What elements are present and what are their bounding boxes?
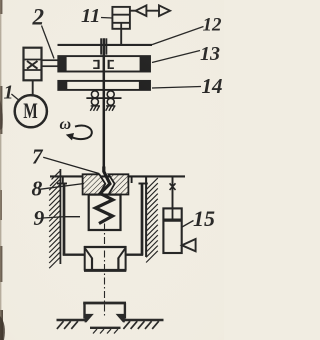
hatch under anvil base [93,329,118,334]
paper edge artifacts [0,0,3,340]
anvil [83,302,126,305]
anvil foot wedge right [116,314,125,323]
leader line to striker tip [43,157,99,173]
right wall hatching [146,178,158,263]
damper box 15 [163,208,181,253]
disc 13 [58,56,150,71]
sensor box 11 [112,7,129,29]
container bottom [63,253,85,255]
leader line to clamp block [41,184,84,190]
leader line to disc 14 [152,87,201,89]
hanger stubs [62,177,64,183]
anvil foot wedge left [85,314,94,323]
ground line [57,319,87,321]
leader line to disc 13 [152,51,200,63]
coupling stack [24,48,42,81]
inner guide rect [89,195,121,230]
leader line to beam [152,27,204,45]
plug collar [84,246,86,271]
slider fork bars [100,38,102,54]
plug block [91,258,93,270]
left wall hatching [49,179,60,268]
leader line to motor [11,94,19,101]
motor M circle [15,95,47,127]
X mark on hanger [170,183,176,190]
disc 14 [58,81,150,90]
bearing mid plate line [86,97,121,99]
container 9 walls [63,183,66,255]
stem from sensor box to beam [120,29,122,45]
bearing ground left [90,106,100,111]
leader line to shaft 2 [42,26,55,59]
nozzle triangle [182,239,196,251]
central shaft [103,38,106,171]
clamp block 8 right [109,174,129,194]
clamp block 8 left [83,174,106,194]
left guide wall [59,169,61,264]
container rims [57,183,67,185]
striker zigzag spring 7 [96,167,113,224]
X in coupling [27,61,38,69]
centerline dash-dot [104,224,106,318]
damper hanger [172,176,174,208]
anvil base lower line [90,327,121,329]
ground hatching [57,321,159,329]
leader line to sensor box [101,17,112,20]
link motor to coupling [32,80,34,95]
leader line into container [42,217,65,218]
sliding sleeve brackets on disc 13 [93,60,114,69]
bearing rollers [91,91,114,106]
right guide wall [145,176,147,257]
top plate [50,175,185,177]
beam 12 [58,44,153,46]
input shaft 2 [42,60,59,66]
rotation arrow [72,126,92,140]
double arrow [130,10,136,12]
bearing ground right [106,106,116,111]
leader line to damper [182,221,194,228]
